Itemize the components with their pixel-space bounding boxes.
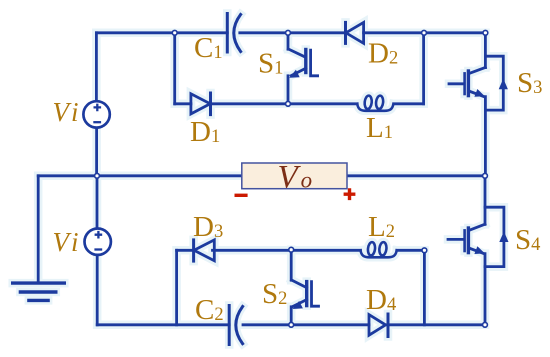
svg-text:D2: D2	[368, 38, 398, 70]
svg-text:S2: S2	[262, 278, 287, 310]
svg-text:V: V	[53, 227, 73, 257]
svg-text:S3: S3	[517, 67, 542, 99]
svg-text:i: i	[71, 97, 79, 127]
svg-text:L2: L2	[368, 211, 395, 243]
svg-text:V: V	[53, 97, 73, 127]
svg-text:D4: D4	[366, 284, 396, 316]
svg-text:D3: D3	[193, 211, 223, 243]
svg-text:D1: D1	[190, 116, 220, 148]
svg-text:C2: C2	[195, 294, 224, 326]
svg-text:i: i	[71, 227, 79, 257]
svg-text:S1: S1	[258, 48, 283, 80]
svg-text:L1: L1	[366, 112, 393, 144]
svg-text:S4: S4	[515, 224, 540, 256]
